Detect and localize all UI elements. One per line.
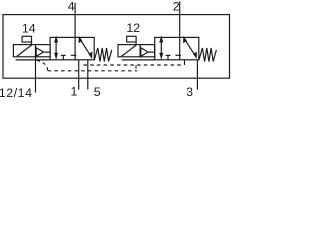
- valve V2 supply stem: [184, 60, 186, 65]
- valve V1 body midline: [74, 37, 76, 59]
- svg-text:2: 2: [173, 0, 180, 13]
- valve V2 body midline: [179, 37, 181, 59]
- port 4 line: [74, 3, 76, 38]
- valve V1 pilot compartment: [36, 45, 51, 57]
- pilot line row B: [84, 64, 184, 66]
- pilot line row A: [48, 70, 137, 72]
- valve V2 underline: [122, 59, 155, 61]
- valve V1 return spring: [94, 48, 112, 62]
- pilot line curve from 12/14: [37, 60, 48, 71]
- svg-text:3: 3: [186, 85, 193, 99]
- valve V1 underline: [16, 59, 51, 61]
- valve V1 pilot tip connector: [44, 51, 51, 53]
- valve V1 pilot rect stem: [31, 42, 33, 45]
- port 5 line: [87, 60, 89, 90]
- valve V1 body: [50, 37, 94, 59]
- valve V2 pilot rect stem: [135, 42, 137, 45]
- valve V2 blocked port T (actuated square): [167, 55, 169, 59]
- port 3 line: [196, 60, 198, 90]
- valve V1 pilot triangle: [36, 48, 43, 57]
- svg-text:1: 1: [71, 84, 78, 98]
- port 2 line: [179, 1, 181, 37]
- valve V2 pilot triangle: [141, 48, 148, 57]
- valve V1 flow diagonal (rest square): [79, 38, 92, 58]
- solenoid coil 14 box: [13, 45, 35, 57]
- enclosure frame: [3, 15, 230, 79]
- valve V2 flow diagonal (rest square): [184, 38, 197, 58]
- pilot line connector: [135, 65, 137, 71]
- valve V2 body: [155, 37, 199, 59]
- port 12/14 line: [35, 57, 37, 93]
- port 1 line: [78, 60, 80, 90]
- valve V1 solenoid pilot rect: [22, 36, 31, 42]
- solenoid coil 12 box: [118, 45, 140, 57]
- svg-text:4: 4: [68, 0, 75, 14]
- svg-text:14: 14: [22, 21, 36, 35]
- valve V2 pilot tip connector: [148, 51, 155, 53]
- valve V1 blocked port T (actuated square): [62, 55, 64, 59]
- solenoid coil 14 diagonal: [17, 45, 32, 56]
- valve V2 return spring: [199, 48, 217, 62]
- valve V2 pilot compartment: [140, 45, 155, 57]
- valve V2 flow arrow (actuated square): [160, 38, 162, 58]
- valve V2 solenoid pilot rect: [127, 36, 136, 42]
- valve V2 midline blocked crossbar: [175, 54, 181, 56]
- svg-text:12/14: 12/14: [0, 86, 33, 99]
- valve V1 flow arrow (actuated square): [55, 38, 57, 58]
- solenoid coil 12 diagonal: [121, 45, 136, 56]
- svg-text:5: 5: [94, 85, 101, 99]
- valve V1 midline blocked crossbar: [71, 54, 77, 56]
- svg-text:12: 12: [126, 21, 140, 35]
